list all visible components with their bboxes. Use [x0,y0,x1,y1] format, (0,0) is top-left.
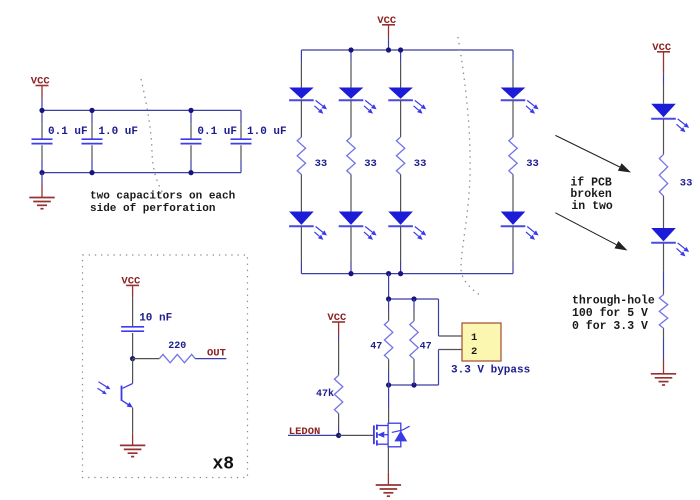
svg-text:in two: in two [571,200,613,213]
resistor pin [338,341,340,375]
wire [413,371,415,385]
LED pin [400,226,402,262]
power symbol VCC (LED array) [377,15,397,27]
capacitor C2 1.0 uF [82,139,103,143]
resistor 47 [384,321,392,359]
perforation dotted line (right) [458,37,481,296]
capacitor C4 1.0 uF [231,139,252,143]
capacitor pin [190,145,192,159]
resistor pin [413,359,415,371]
resistor pin [388,359,390,371]
annotation arrow (upper) [555,135,619,167]
wire [350,262,352,274]
wire [388,385,390,409]
resistor pin [413,310,415,321]
wire [91,159,93,172]
svg-text:10 nF: 10 nF [139,313,172,325]
svg-text:3.3 V bypass: 3.3 V bypass [451,365,530,377]
resistor 47 [410,321,418,359]
wire [512,262,514,274]
wire VCC stub [663,52,665,74]
svg-text:two capacitors on each: two capacitors on each [90,191,235,203]
LED D1b [289,212,327,240]
junction [411,296,416,301]
resistor 220 [159,354,195,362]
resistor R1 33 [297,137,305,175]
wire [41,110,43,123]
pin [663,119,665,155]
capacitor pin [240,145,242,159]
svg-text:220: 220 [168,341,186,352]
wire VCC stub [388,25,390,38]
wire [300,262,302,274]
resistor 47k [334,375,342,413]
svg-text:47: 47 [370,342,382,353]
junction [89,170,94,175]
wire from LED array to transistor [388,274,390,299]
pin [663,196,665,228]
capacitor pin [91,145,93,159]
pin [512,100,514,137]
resistor pin [663,328,665,338]
junction [398,47,403,52]
resistor pin [663,289,665,295]
wire [400,262,402,274]
pin [300,175,302,212]
wire VCC stub [132,285,134,297]
power symbol VCC (right column) [652,42,672,54]
capacitor pin [41,145,43,159]
power symbol VCC (capacitor bank) [31,76,51,88]
junction [348,47,353,52]
wire [338,426,340,435]
capacitor C1 0.1 uF [32,139,53,143]
svg-text:2: 2 [471,346,477,358]
LED pin [512,226,514,262]
svg-text:47k: 47k [316,388,334,400]
capacitor pin [240,123,242,139]
LED D5a [651,104,689,133]
wire [388,299,390,310]
svg-text:0.1 uF: 0.1 uF [197,126,237,138]
junction [386,271,391,276]
capacitor 10 nF [121,327,144,331]
pin [400,100,402,137]
MOSFET gate pin [339,434,374,436]
perforation dotted line (left) [141,79,164,195]
ground [29,198,54,209]
svg-text:1: 1 [471,332,477,344]
svg-text:1.0 uF: 1.0 uF [98,126,138,138]
pin [400,175,402,212]
LED pin [350,62,352,88]
junction [188,108,193,113]
wire [388,371,390,385]
svg-text:0 for 3.3 V: 0 for 3.3 V [572,320,648,333]
LED D3b [388,212,426,240]
junction [89,108,94,113]
svg-text:33: 33 [526,158,539,170]
wire to jumper pin 1 [438,299,440,336]
svg-text:33: 33 [680,178,693,190]
transistor Q1 n-channel MOSFET with zener [374,423,410,447]
junction [336,433,341,438]
svg-text:33: 33 [315,158,328,170]
wire [413,299,415,310]
jumper pin 1 lead [439,335,463,337]
pin [300,100,302,137]
wire [663,338,665,361]
pin [512,175,514,212]
svg-text:33: 33 [364,158,377,170]
ground [376,485,401,496]
capacitor pin [91,123,93,139]
svg-text:100 for 5 V: 100 for 5 V [572,307,648,320]
LED pin [350,226,352,262]
emitter pin [132,408,134,434]
svg-text:x8: x8 [213,455,235,475]
LED D4b [501,212,539,240]
wire top bus of LED array [301,49,513,51]
svg-text:through-hole: through-hole [572,295,655,308]
wire OUT [195,358,226,360]
svg-text:47: 47 [420,342,432,353]
capacitor pin [41,123,43,139]
wire [190,159,192,172]
wire VCC stub [41,86,43,99]
wire VCC stub [338,322,340,335]
junction [348,271,353,276]
wire [400,50,402,62]
junction [130,356,135,361]
wire [91,110,93,123]
LED D2a [339,88,377,114]
resistor R5 33 [659,154,667,196]
wire [240,110,242,123]
LED D5b [651,228,689,256]
LED pin [300,62,302,88]
power symbol VCC (47k pullup) [327,312,347,324]
wire [350,50,352,62]
wire [512,50,514,62]
resistor R3 33 [396,137,404,175]
svg-text:side of perforation: side of perforation [90,203,215,215]
LED pin [663,85,665,104]
junction [386,382,391,387]
wire [300,50,302,62]
resistor pin [338,414,340,427]
jumper pin 2 lead [439,349,463,351]
jumper JP1 3.3 V bypass [462,323,501,361]
wire LEDON [288,434,339,436]
wire [240,159,242,172]
wire from jumper pin 2 [438,350,440,386]
wire node row bottom [389,384,439,386]
junction [386,296,391,301]
LED pin [663,243,665,271]
junction [39,108,44,113]
wire top bus of capacitor bank [42,109,241,111]
wire bottom bus of LED array [301,273,513,275]
junction [386,47,391,52]
svg-text:0.1 uF: 0.1 uF [48,126,88,138]
capacitor C3 0.1 uF [181,139,202,143]
junction [188,170,193,175]
capacitor pin [132,297,134,327]
wire [663,271,665,289]
svg-text:OUT: OUT [207,348,226,360]
dashed module boundary box [83,255,248,478]
capacitor pin [132,333,134,359]
resistor pin [133,358,160,360]
MOSFET drain pin [388,409,390,423]
resistor R4 33 [509,137,517,175]
junction [398,271,403,276]
wire bottom bus of capacitor bank [42,172,241,174]
phototransistor Q2 [98,359,133,408]
wire [41,159,43,172]
resistor R2 33 [347,137,355,175]
annotation arrow (lower) [555,213,616,245]
ground [651,374,676,385]
resistor through-hole [659,295,667,329]
pin [350,175,352,212]
pin [350,100,352,137]
wire [190,110,192,123]
svg-text:33: 33 [414,158,427,170]
resistor pin [388,310,390,321]
wire to ground [41,173,43,185]
svg-text:1.0 uF: 1.0 uF [247,126,287,138]
MOSFET source pin [387,447,389,472]
LED pin [300,226,302,262]
power symbol VCC (sensor) [121,276,141,288]
ground [120,445,145,456]
LED D4a [501,88,539,114]
wire node row top [389,298,439,300]
LED pin [512,62,514,88]
LED D2b [339,212,377,240]
LED D1a [289,88,327,114]
LED pin [400,62,402,88]
LED D3a [388,88,426,114]
capacitor pin [190,123,192,139]
junction [39,170,44,175]
junction [411,382,416,387]
